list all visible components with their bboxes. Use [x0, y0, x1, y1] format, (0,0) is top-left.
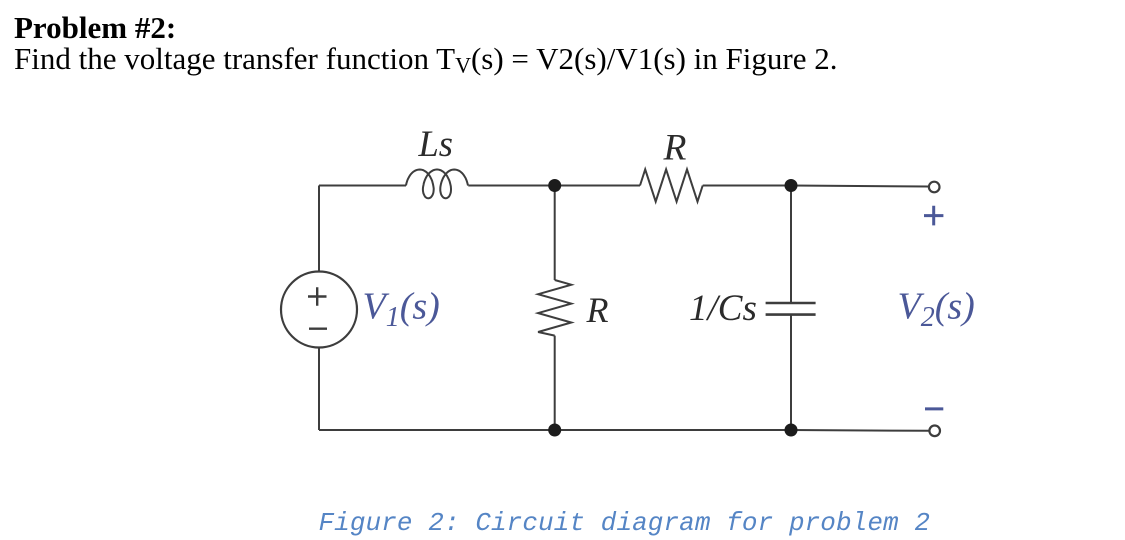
- svg-text:Problem #2:: Problem #2:: [14, 10, 176, 45]
- capacitor C (value 1/Cs) top plate: [766, 302, 816, 305]
- junction node A (top of shunt R): [548, 179, 561, 192]
- svg-text:V1(s): V1(s): [363, 285, 440, 333]
- wire: top (series resistor R to node B): [703, 185, 791, 187]
- terminal minus (open circle): [929, 426, 940, 437]
- svg-text:1/Cs: 1/Cs: [689, 288, 757, 329]
- resistor R series (horizontal zigzag): [640, 169, 703, 201]
- wire: bottom (node D to minus terminal): [791, 429, 929, 432]
- junction node D (bottom of capacitor): [785, 424, 798, 437]
- terminal plus (open circle): [929, 182, 940, 193]
- wire: right vertical (capacitor C to node D): [790, 315, 792, 430]
- wire: bottom (node C to node D): [555, 429, 791, 431]
- source V1 (circle symbol): [281, 272, 357, 348]
- junction node C (bottom of shunt R): [548, 424, 561, 437]
- svg-text:Find the voltage transfer func: Find the voltage transfer function TV(s)…: [14, 41, 837, 78]
- wire: left vertical top (corner to source V1): [318, 186, 320, 272]
- wire: middle vertical (node A to shunt resistor R): [554, 186, 556, 281]
- wire: middle vertical (shunt resistor R to node C): [554, 336, 556, 430]
- svg-text:V2(s): V2(s): [898, 285, 975, 333]
- wire: top-left horizontal (source corner to inductor): [319, 185, 406, 187]
- source V1 minus marking: [309, 328, 327, 330]
- resistor R shunt (vertical zigzag): [538, 280, 571, 336]
- junction node B (top of capacitor): [785, 179, 798, 192]
- wire: left vertical bottom (source V1 to bottom wire): [318, 347, 320, 430]
- capacitor C (value 1/Cs) bottom plate: [766, 313, 816, 316]
- svg-text:R: R: [663, 128, 687, 169]
- label minus (output polarity, blue): [925, 407, 943, 410]
- inductor L (value Ls) coil: [406, 170, 468, 199]
- svg-text:Ls: Ls: [418, 123, 454, 164]
- svg-text:Figure 2: Circuit diagram for: Figure 2: Circuit diagram for problem 2: [319, 508, 931, 538]
- wire: bottom (left corner to node C): [319, 429, 555, 431]
- wire: top middle (inductor to node A): [468, 185, 554, 187]
- label plus (output polarity, blue): [924, 206, 943, 226]
- svg-text:R: R: [586, 290, 609, 330]
- wire: right vertical (node B to capacitor C): [790, 186, 792, 304]
- source V1 plus marking: [308, 287, 327, 306]
- wire: top (node A to series resistor R): [555, 185, 640, 187]
- wire: top right (node B to plus terminal): [791, 186, 928, 187]
